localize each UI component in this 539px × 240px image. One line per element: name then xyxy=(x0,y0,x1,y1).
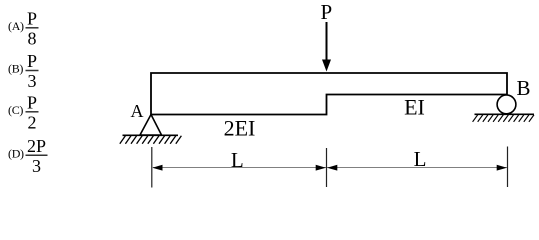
svg-text:3: 3 xyxy=(32,156,41,176)
svg-text:A: A xyxy=(131,101,144,121)
svg-text:P: P xyxy=(27,51,37,71)
svg-text:(C): (C) xyxy=(8,103,23,117)
svg-text:(A): (A) xyxy=(8,19,24,33)
svg-text:EI: EI xyxy=(404,94,425,119)
svg-text:B: B xyxy=(516,76,530,100)
svg-text:2P: 2P xyxy=(27,136,46,156)
svg-text:8: 8 xyxy=(28,28,37,48)
svg-text:L: L xyxy=(414,147,427,171)
svg-text:P: P xyxy=(320,0,332,24)
svg-text:P: P xyxy=(27,8,37,28)
svg-text:2EI: 2EI xyxy=(224,116,256,141)
svg-text:(D): (D) xyxy=(8,146,24,160)
svg-text:P: P xyxy=(27,92,37,112)
svg-text:(B): (B) xyxy=(8,62,23,76)
svg-text:2: 2 xyxy=(28,112,37,132)
svg-text:L: L xyxy=(231,148,244,172)
svg-text:3: 3 xyxy=(28,71,37,91)
